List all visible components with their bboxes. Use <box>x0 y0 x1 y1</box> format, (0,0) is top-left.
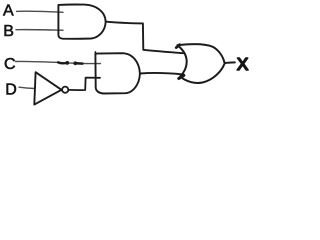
NOT gate U3 inversion bubble <box>62 87 68 93</box>
wire C to AND2 <box>16 61 101 63</box>
wire D to NOT gate <box>19 87 35 88</box>
ink dot on wire C <box>65 61 69 65</box>
wire U1 output to OR gate U4 (net N1) <box>106 22 183 54</box>
svg-text:C: C <box>4 56 16 73</box>
wire A to AND1 <box>17 11 64 12</box>
svg-text:B: B <box>3 23 14 40</box>
ink dot 2 on wire C <box>73 61 77 65</box>
AND gate U1 (inputs A,B) <box>58 5 105 39</box>
wire U2 output to OR gate lower input <box>140 73 183 74</box>
OR gate bottom-left corner ink hook <box>179 75 184 78</box>
wire NOT output to AND2 lower input <box>68 78 100 91</box>
svg-text:A: A <box>3 3 14 20</box>
NOT gate U3 triangle (input D) <box>34 72 61 104</box>
svg-text:X: X <box>237 54 249 74</box>
ink blob 1 on wire C <box>58 62 66 63</box>
svg-text:D: D <box>5 82 17 99</box>
OR gate top-left corner ink hook <box>176 45 179 48</box>
wire B to AND1 <box>16 29 63 32</box>
AND gate U2 top-left corner overshoot tick <box>94 52 96 55</box>
wire OR output to X <box>225 61 235 64</box>
OR gate U4 <box>177 44 224 83</box>
AND gate U2 (inputs C, NOT D) <box>95 53 139 93</box>
ink blob 2 on wire C <box>76 62 83 65</box>
